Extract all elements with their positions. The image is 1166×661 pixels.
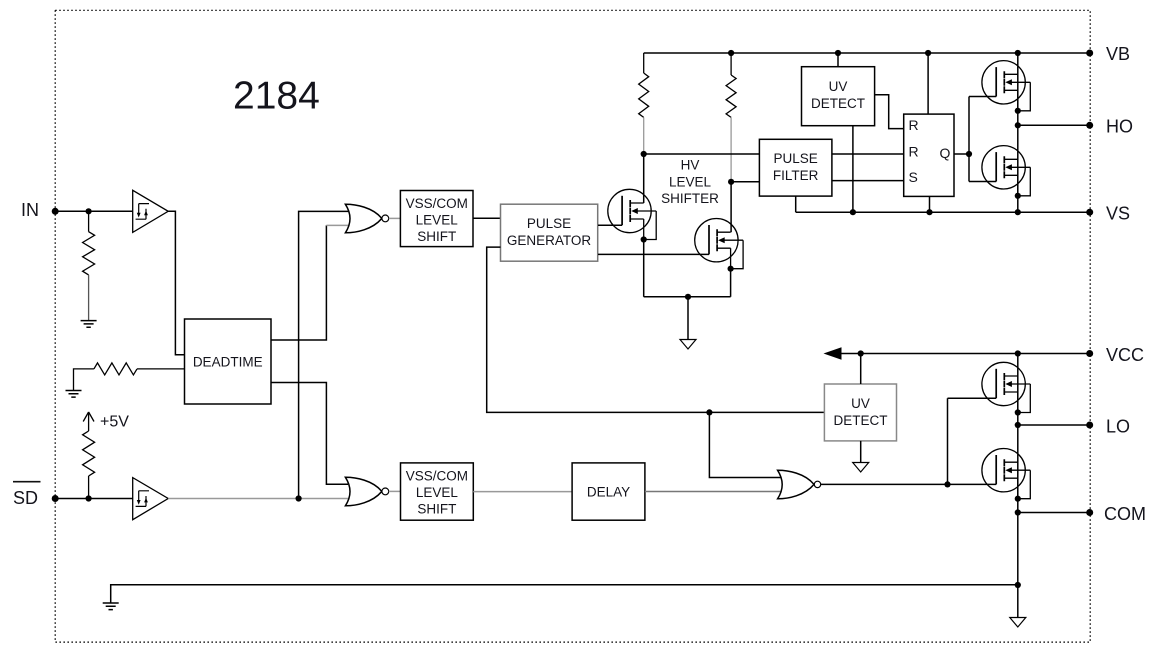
block UV DETECT low side: [824, 384, 896, 441]
svg-text:LEVEL: LEVEL: [416, 485, 459, 500]
wire pulse filter to latch R2: [832, 153, 904, 155]
svg-text:IN: IN: [21, 200, 39, 220]
svg-text:VB: VB: [1106, 44, 1130, 64]
ground deadtime resistor: [66, 391, 82, 398]
wire SD buffer output: [168, 495, 349, 501]
svg-text:SHIFT: SHIFT: [417, 229, 456, 244]
wire output NOR to gate bus: [821, 481, 997, 487]
pin VB: [1086, 44, 1130, 64]
resistor SD pullup: [83, 412, 95, 499]
transistor M5 low side driver top: [982, 362, 1030, 415]
svg-text:SHIFT: SHIFT: [417, 502, 456, 517]
wire HO output: [1018, 124, 1090, 126]
wire pulse filter bottom to VS: [795, 196, 797, 212]
bottom VSS rail: [111, 585, 1018, 603]
pin LO: [1086, 417, 1130, 437]
svg-text:DEADTIME: DEADTIME: [193, 355, 263, 370]
wire M2 source down: [730, 269, 732, 297]
wire pulse filter to latch S: [832, 180, 904, 182]
wire pulse gen to M2 gate: [598, 253, 709, 255]
svg-text:DELAY: DELAY: [587, 485, 630, 500]
wire UV low top pin: [860, 354, 862, 385]
wire LO output: [1018, 424, 1090, 426]
svg-text:SHIFTER: SHIFTER: [661, 191, 719, 206]
svg-text:S: S: [909, 169, 918, 185]
wire SD bus to upper NOR: [299, 211, 349, 498]
svg-text:DETECT: DETECT: [811, 96, 865, 111]
transistor M2 HV level shifter: [695, 219, 743, 272]
label HV LEVEL SHIFTER: [661, 158, 719, 207]
wire COM output: [1018, 512, 1090, 514]
latch RS: [904, 114, 954, 196]
wire buffer IN to deadtime: [168, 211, 184, 354]
block PULSE FILTER: [759, 139, 832, 196]
wire delay to output NOR: [645, 491, 782, 493]
ground arrow HV shifter: [680, 340, 696, 350]
NOR gate upper: [345, 204, 388, 233]
node R2/M2 drain: [728, 179, 759, 233]
svg-text:PULSE: PULSE: [773, 151, 817, 166]
wire pulse gen loop to low-side UV: [487, 247, 825, 415]
svg-text:VSS/COM: VSS/COM: [406, 469, 468, 484]
wire IN input: [55, 208, 133, 214]
svg-text:GENERATOR: GENERATOR: [507, 233, 592, 248]
wire level shift to delay: [473, 491, 572, 493]
wire low side output column: [1015, 354, 1021, 589]
transistor M1 HV level shifter: [608, 189, 656, 242]
wire high side gate bus: [969, 97, 996, 182]
svg-text:DETECT: DETECT: [834, 413, 888, 428]
wire latch Q to gate bus: [954, 151, 972, 157]
wire HV shifter source rail: [644, 294, 731, 340]
wire column to COM ground arrow: [1017, 585, 1019, 618]
block DELAY: [572, 463, 645, 520]
transistor M3 high side driver top: [982, 61, 1030, 114]
svg-text:LEVEL: LEVEL: [416, 213, 459, 228]
svg-text:COM: COM: [1104, 504, 1146, 524]
wire deadtime out1 to upper NOR: [271, 225, 349, 340]
svg-text:R: R: [909, 144, 919, 160]
pin SD (active low): [13, 482, 59, 508]
wire UV net to output NOR: [709, 412, 781, 477]
wire UV low bottom pin: [860, 441, 862, 463]
block VSS/COM LEVEL SHIFT upper: [400, 191, 473, 247]
svg-text:UV: UV: [829, 79, 848, 94]
svg-text:Q: Q: [940, 145, 951, 161]
resistor deadtime set: [74, 363, 185, 391]
svg-text:LEVEL: LEVEL: [669, 175, 712, 190]
VCC rail with arrow: [824, 347, 1090, 360]
ground bottom rail: [103, 603, 119, 610]
wire M1 source down: [643, 240, 645, 297]
wire UV top pin: [837, 53, 839, 67]
svg-text:VCC: VCC: [1106, 345, 1144, 365]
resistor R2 bootstrap: [726, 53, 736, 182]
svg-text:LO: LO: [1106, 417, 1130, 437]
wire latch top pin: [927, 53, 929, 114]
ground arrow COM column: [1010, 618, 1026, 628]
wire UV to latch R1: [875, 95, 904, 129]
svg-text:R: R: [909, 117, 919, 133]
block UV DETECT high side: [802, 67, 875, 126]
top rail VB: [644, 50, 1090, 56]
resistor IN pulldown: [83, 211, 95, 320]
svg-text:2184: 2184: [233, 75, 320, 118]
wire deadtime out2 to lower NOR: [271, 383, 348, 485]
block PULSE GENERATOR: [501, 204, 598, 261]
pin VS: [1086, 204, 1130, 224]
wire lower NOR out: [389, 490, 401, 492]
schmitt buffer SD: [133, 478, 169, 520]
svg-text:VSS/COM: VSS/COM: [406, 196, 468, 211]
schmitt buffer IN: [133, 190, 169, 232]
transistor M4 high side driver bottom: [982, 146, 1030, 199]
wire low side gate bus: [948, 398, 997, 484]
wire high side output column: [1015, 53, 1021, 212]
ground IN pulldown: [81, 321, 97, 328]
NOR gate lower left: [345, 477, 388, 506]
svg-text:HO: HO: [1106, 117, 1133, 137]
block VSS/COM LEVEL SHIFT lower: [401, 463, 474, 520]
resistor R1 bootstrap: [639, 53, 649, 154]
node R1/M1 drain: [641, 151, 760, 203]
wire pulse gen to M1 gate: [598, 224, 622, 226]
svg-text:SD: SD: [13, 488, 38, 508]
wire upper NOR out: [389, 217, 401, 219]
svg-text:PULSE: PULSE: [527, 216, 571, 231]
svg-text:UV: UV: [851, 396, 870, 411]
NOR gate output low side: [778, 470, 821, 499]
pin IN: [21, 200, 59, 220]
ground arrow UV low: [853, 463, 869, 473]
svg-text:HV: HV: [681, 158, 700, 173]
svg-text:FILTER: FILTER: [773, 168, 819, 183]
wire SD input: [55, 495, 133, 501]
wire level shift to pulse generator: [473, 217, 501, 219]
svg-text:+5V: +5V: [100, 414, 129, 431]
svg-text:VS: VS: [1106, 204, 1130, 224]
block DEADTIME: [185, 319, 272, 404]
wire latch bottom pin: [929, 196, 931, 212]
pin HO: [1086, 117, 1133, 137]
pin VCC: [1086, 345, 1144, 365]
wire UV bottom to VS: [852, 126, 854, 213]
VS rail: [796, 209, 1090, 215]
pin COM: [1086, 504, 1146, 524]
transistor M6 low side driver bottom: [982, 449, 1030, 502]
